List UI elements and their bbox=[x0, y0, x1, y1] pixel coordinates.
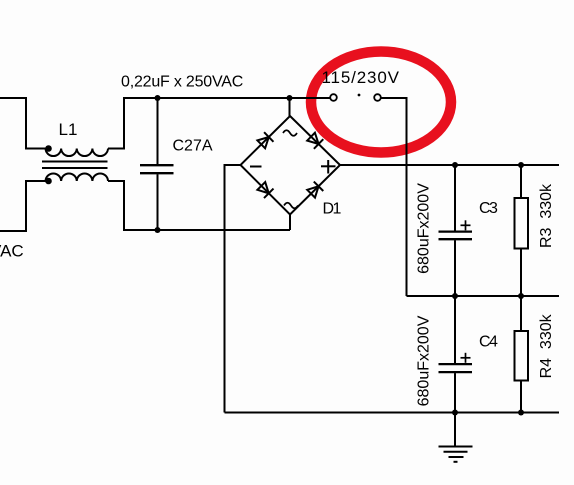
svg-text:L1: L1 bbox=[59, 120, 78, 139]
wire: doubler mid rail bbox=[407, 295, 560, 297]
symbol: minus at bridge left bbox=[250, 166, 262, 168]
symbol: AC tilde bottom inside bridge bbox=[284, 203, 298, 209]
switch 115/230V left terminal bbox=[330, 94, 337, 101]
switch 115/230V contact dot bbox=[358, 94, 361, 97]
wire: L1 bottom winding to bottom AC wire bbox=[108, 181, 290, 230]
symbol: AC tilde top inside bridge bbox=[283, 130, 297, 136]
wire: AC neutral input bottom-left bbox=[0, 181, 46, 231]
wire: stub bridge bottom corner to bottom AC wire bbox=[289, 215, 291, 231]
svg-text:680uFx200V: 680uFx200V bbox=[415, 315, 432, 406]
diode D1b (AC top to plus) bbox=[306, 132, 323, 149]
wire: switch right terminal down to doubler mid rail bbox=[381, 98, 407, 296]
node: bottom rail / R4 bottom bbox=[518, 410, 524, 416]
resistor R3 bbox=[515, 165, 529, 296]
wire: AC line input top-left bbox=[0, 98, 46, 149]
node: mid rail / R3-R4 junction bbox=[518, 293, 524, 299]
node: positive rail / C3 bbox=[452, 162, 458, 168]
ground symbol bbox=[439, 413, 473, 462]
svg-text:C4: C4 bbox=[479, 333, 498, 350]
svg-text:C3: C3 bbox=[479, 200, 498, 217]
switch 115/230V right terminal bbox=[374, 94, 381, 101]
capacitor C27A bbox=[140, 98, 174, 230]
svg-text:680uFx200V: 680uFx200V bbox=[415, 183, 432, 274]
wire: negative bottom rail bbox=[225, 412, 560, 414]
diode D1a (minus to AC top) bbox=[257, 132, 274, 149]
wire: L1 top winding to top rail bbox=[108, 98, 330, 149]
diode D1d (AC bottom to plus) bbox=[306, 182, 323, 199]
wire: stub bridge top corner to top rail bbox=[289, 98, 291, 116]
diode D1c (minus to AC bottom) bbox=[257, 181, 274, 198]
capacitor C3 electrolytic bbox=[439, 165, 473, 296]
inductor L1 common-mode choke bbox=[42, 145, 108, 184]
node: junction top rail / bridge AC input bbox=[287, 95, 293, 101]
svg-text:115/230V: 115/230V bbox=[322, 68, 400, 87]
svg-text:0,22uF x 250VAC: 0,22uF x 250VAC bbox=[121, 74, 243, 91]
wire: bridge minus output down to bottom rail bbox=[225, 165, 241, 413]
node: bottom rail / C4 bottom bbox=[452, 410, 458, 416]
symbol: plus at bridge right bbox=[321, 165, 336, 167]
annotation: red ellipse highlight around 115/230V selector bbox=[311, 52, 451, 153]
wire: positive rail from bridge to right bbox=[340, 164, 559, 166]
capacitor C4 electrolytic bbox=[439, 296, 473, 413]
svg-text:VAC: VAC bbox=[0, 242, 24, 261]
svg-text:R3 330k: R3 330k bbox=[538, 183, 555, 248]
node: mid rail / C3-C4 junction bbox=[452, 293, 458, 299]
svg-text:R4 330k: R4 330k bbox=[538, 313, 555, 378]
node: junction top rail / C27A top bbox=[155, 95, 161, 101]
svg-text:D1: D1 bbox=[323, 201, 342, 218]
resistor R4 bbox=[515, 296, 529, 413]
node: junction bottom wire / C27A bottom bbox=[155, 227, 161, 233]
bridge rectifier D1 diamond bbox=[241, 116, 341, 215]
node: positive rail / R3 bbox=[518, 162, 524, 168]
svg-text:C27A: C27A bbox=[173, 137, 213, 154]
